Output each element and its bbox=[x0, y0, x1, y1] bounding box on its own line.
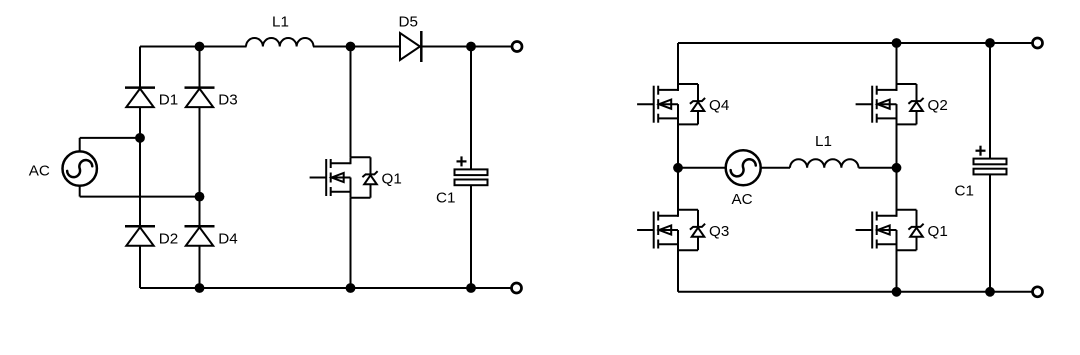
mosfet Q1 body arrow bbox=[877, 225, 897, 234]
output terminal bottom right circuit bbox=[1033, 287, 1043, 297]
mosfet Q3 body diode bbox=[690, 224, 705, 237]
label AC right bbox=[732, 191, 753, 208]
junction AC bottom / right leg bbox=[195, 192, 205, 202]
wire AC bottom to bridge bbox=[80, 196, 200, 198]
label D1 bbox=[159, 92, 178, 109]
mosfet Q1 channel segments bbox=[876, 212, 878, 249]
mosfet Q1 source stub bbox=[331, 191, 351, 193]
wire left leg lower bbox=[677, 230, 679, 292]
svg-text:AC: AC bbox=[732, 191, 753, 208]
mosfet Q1 gate lead bbox=[856, 229, 873, 231]
mosfet Q1 body diode bbox=[908, 224, 923, 237]
mosfet Q4 body arrow bbox=[658, 100, 678, 109]
junction C1 bottom rail right bbox=[985, 287, 995, 297]
wire bottom rail left circuit bbox=[140, 287, 511, 289]
mosfet Q4 source stub bbox=[658, 117, 678, 119]
wire C1 bottom lead bbox=[470, 185, 472, 288]
mosfet Q1 body diode branch bbox=[897, 210, 917, 250]
mosfet Q4 drain stub bbox=[658, 84, 678, 91]
junction right leg midpoint bbox=[892, 163, 902, 173]
plus polarity mark bbox=[976, 146, 986, 156]
label Q1 bbox=[928, 223, 948, 240]
inductor L1 right circuit bbox=[790, 159, 859, 168]
svg-text:L1: L1 bbox=[815, 133, 832, 150]
wire right bridge leg bbox=[199, 47, 201, 289]
wire L1 to right leg bbox=[859, 167, 897, 169]
capacitor C1 right circuit bbox=[974, 159, 1007, 175]
junction Q1 drain top rail bbox=[346, 42, 356, 52]
wire top rail right of L1 bbox=[313, 46, 511, 48]
label AC left bbox=[29, 162, 50, 179]
mosfet Q1 gate bar bbox=[325, 159, 327, 196]
wire Q1 drain bbox=[350, 47, 352, 158]
label Q3 bbox=[709, 223, 729, 240]
junction C1 top rail right bbox=[985, 38, 995, 48]
wire right leg lower bbox=[896, 230, 898, 292]
junction Q1 source bottom rail bbox=[346, 283, 356, 293]
mosfet Q3 body diode branch bbox=[678, 210, 698, 250]
wire midpoint to AC bbox=[678, 167, 726, 169]
mosfet Q1 drain stub bbox=[877, 210, 897, 217]
label L1 right bbox=[815, 133, 832, 150]
mosfet Q3 body arrow bbox=[658, 225, 678, 234]
mosfet Q2 channel segments bbox=[876, 86, 878, 123]
mosfet Q3 gate lead bbox=[637, 229, 654, 231]
junction C1 bottom rail bbox=[466, 283, 476, 293]
wire left leg middle bbox=[677, 104, 679, 217]
AC source left circuit bbox=[62, 151, 96, 185]
svg-text:D1: D1 bbox=[159, 92, 178, 109]
svg-text:Q1: Q1 bbox=[928, 223, 948, 240]
wire C1 top lead bbox=[470, 47, 472, 170]
label D2 bbox=[159, 230, 178, 247]
mosfet Q4 source vertical bbox=[677, 104, 679, 124]
mosfet Q2 source vertical bbox=[896, 104, 898, 124]
mosfet Q2 drain stub bbox=[877, 84, 897, 91]
plus polarity mark bbox=[457, 156, 467, 166]
mosfet Q1 body diode bbox=[362, 171, 377, 184]
wire right leg upper bbox=[896, 43, 898, 91]
svg-text:C1: C1 bbox=[955, 183, 974, 200]
wire left bridge leg bbox=[139, 47, 141, 289]
mosfet Q4 body diode bbox=[690, 98, 705, 111]
mosfet Q1 source vertical bbox=[896, 230, 898, 250]
AC source right circuit bbox=[726, 150, 761, 185]
mosfet Q4 body diode branch bbox=[678, 84, 698, 124]
diode D2 bbox=[125, 226, 155, 246]
mosfet Q4 gate lead bbox=[637, 103, 654, 105]
junction Q1 source bottom rail right bbox=[892, 287, 902, 297]
diode D1 bbox=[125, 88, 155, 108]
junction left leg midpoint bbox=[673, 163, 683, 173]
svg-text:D5: D5 bbox=[399, 14, 418, 31]
svg-text:Q4: Q4 bbox=[709, 97, 729, 114]
wire AC bottom lead bbox=[79, 185, 81, 196]
label D4 bbox=[218, 230, 237, 247]
svg-text:Q3: Q3 bbox=[709, 223, 729, 240]
diode D3 bbox=[185, 88, 215, 108]
diode D4 bbox=[185, 226, 215, 246]
wire AC to L1 bbox=[761, 167, 790, 169]
svg-text:D2: D2 bbox=[159, 230, 178, 247]
junction D4 bottom rail bbox=[195, 283, 205, 293]
mosfet Q1 drain stub bbox=[331, 157, 351, 164]
svg-text:C1: C1 bbox=[436, 190, 455, 207]
svg-text:Q1: Q1 bbox=[382, 171, 402, 188]
mosfet Q1 body diode branch bbox=[351, 157, 371, 197]
label Q1 bbox=[382, 171, 402, 188]
mosfet Q3 drain stub bbox=[658, 210, 678, 217]
junction Q2 drain top rail bbox=[892, 38, 902, 48]
output terminal top right circuit bbox=[1033, 38, 1043, 48]
wire Q1 source to bottom rail bbox=[350, 198, 352, 288]
mosfet Q2 gate lead bbox=[856, 103, 873, 105]
wire right leg middle bbox=[896, 104, 898, 217]
mosfet Q3 channel segments bbox=[657, 212, 659, 249]
output terminal top left circuit bbox=[512, 42, 522, 52]
output terminal bottom left circuit bbox=[512, 283, 522, 293]
mosfet Q3 gate bar bbox=[653, 212, 655, 249]
mosfet Q1 channel segments bbox=[330, 159, 332, 196]
svg-text:D3: D3 bbox=[218, 92, 237, 109]
wire top rail right circuit bbox=[678, 42, 1032, 44]
inductor L1 left circuit bbox=[246, 38, 314, 46]
wire bottom rail right circuit bbox=[678, 291, 1032, 293]
capacitor C1 left circuit bbox=[455, 169, 488, 185]
junction C1 top rail bbox=[466, 42, 476, 52]
mosfet Q2 body arrow bbox=[877, 100, 897, 109]
mosfet Q1 gate lead bbox=[310, 177, 327, 179]
svg-text:L1: L1 bbox=[272, 14, 289, 31]
label D5 bbox=[399, 14, 418, 31]
mosfet Q1 source vertical bbox=[350, 178, 352, 198]
mosfet Q2 gate bar bbox=[871, 86, 873, 123]
junction AC top / left leg bbox=[135, 133, 145, 143]
mosfet Q3 source vertical bbox=[677, 230, 679, 250]
diode D5 bbox=[400, 31, 421, 62]
mosfet Q1 gate bar bbox=[871, 212, 873, 249]
mosfet Q1 body arrow bbox=[331, 173, 351, 182]
wire AC top lead bbox=[79, 138, 81, 152]
label Q4 bbox=[709, 97, 729, 114]
mosfet Q2 source stub bbox=[877, 117, 897, 119]
mosfet Q4 channel segments bbox=[657, 86, 659, 123]
wire AC top to bridge bbox=[80, 137, 140, 139]
svg-text:D4: D4 bbox=[218, 230, 237, 247]
label C1 left bbox=[436, 190, 455, 207]
mosfet Q3 source stub bbox=[658, 243, 678, 245]
label Q2 bbox=[928, 97, 948, 114]
wire top rail left of L1 bbox=[140, 46, 247, 48]
svg-text:Q2: Q2 bbox=[928, 97, 948, 114]
label D3 bbox=[218, 92, 237, 109]
mosfet Q4 gate bar bbox=[653, 86, 655, 123]
svg-text:AC: AC bbox=[29, 162, 50, 179]
label C1 right bbox=[955, 183, 974, 200]
mosfet Q2 body diode bbox=[908, 98, 923, 111]
wire C1 right bottom lead bbox=[989, 174, 991, 291]
label L1 left bbox=[272, 14, 289, 31]
mosfet Q2 body diode branch bbox=[897, 84, 917, 124]
junction D3 top rail bbox=[195, 42, 205, 52]
wire C1 right top lead bbox=[989, 43, 991, 159]
wire left leg upper bbox=[677, 43, 679, 91]
mosfet Q1 source stub bbox=[877, 243, 897, 245]
